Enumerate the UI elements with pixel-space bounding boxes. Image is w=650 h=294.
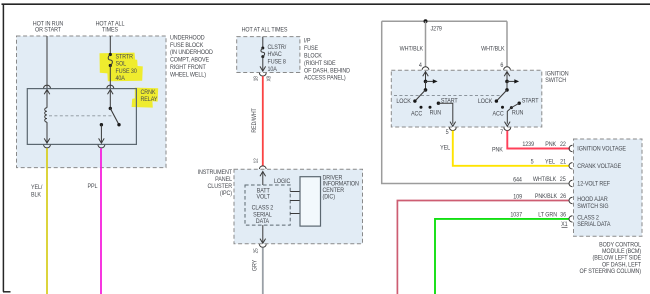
node CRANK VOLTAGE (577, 164, 621, 170)
svg-text:PNK/BLK: PNK/BLK (535, 194, 557, 200)
svg-text:CRNK: CRNK (141, 90, 156, 96)
label 109 PNK/BLK 26 (513, 194, 566, 201)
svg-text:PANEL: PANEL (215, 177, 233, 183)
wire logic to DIC stub 2 (290, 200, 300, 202)
wire WHT/BLK to ignition pin 6 (506, 21, 508, 67)
svg-text:FUSE BLOCK: FUSE BLOCK (170, 43, 203, 49)
connector dome at IPC entry (259, 166, 266, 169)
svg-text:RED/WHT: RED/WHT (252, 108, 258, 133)
svg-text:MODULE (BCM): MODULE (BCM) (602, 249, 641, 255)
node CLASS 2 SERIAL DATA (BCM) (577, 215, 610, 228)
svg-text:HOOD AJAR: HOOD AJAR (577, 197, 607, 203)
label LOCK (switch 1) (396, 99, 411, 105)
connector arc at BCM pin 36 (569, 216, 573, 222)
svg-text:PNK: PNK (545, 142, 556, 148)
pin 6 (500, 63, 503, 69)
instrument panel cluster dashed box (234, 169, 363, 244)
label WHT/BLK (left drop) (400, 46, 424, 52)
svg-text:LOCK: LOCK (396, 99, 411, 105)
svg-text:FUSE: FUSE (304, 46, 318, 52)
svg-text:WHT/BLK: WHT/BLK (481, 46, 505, 52)
page left border (2, 4, 4, 292)
svg-text:INSTRUMENT: INSTRUMENT (198, 170, 233, 176)
svg-text:1239: 1239 (522, 142, 534, 148)
wire into fuse 8 (262, 37, 264, 48)
connector dome at relay pin (switch hot) (107, 85, 114, 88)
svg-text:OF STEERING COLUMN): OF STEERING COLUMN) (580, 269, 642, 275)
svg-text:5: 5 (531, 159, 534, 165)
label RUN (switch 1) (430, 110, 441, 116)
wire logic to DIC stub 1 (290, 191, 300, 193)
svg-text:7: 7 (500, 130, 503, 136)
svg-text:OR START: OR START (35, 27, 62, 33)
svg-text:STRTR: STRTR (116, 54, 133, 60)
ignition switch dashed box (391, 70, 542, 127)
svg-text:DATA: DATA (256, 219, 269, 225)
connector cup at ignition pin 7 (504, 127, 511, 130)
relay switch contacts and blade (100, 107, 121, 127)
svg-text:6: 6 (500, 63, 503, 69)
label HOT AT ALL TIMES (left) (96, 21, 126, 33)
svg-text:PPL: PPL (88, 184, 99, 190)
svg-text:12-VOLT REF: 12-VOLT REF (577, 181, 610, 187)
svg-text:18: 18 (253, 76, 259, 81)
label YEL (at bend) (440, 145, 451, 151)
pin 25 (253, 248, 259, 253)
pin X8 (266, 76, 272, 82)
svg-text:12: 12 (253, 158, 259, 163)
svg-text:TIMES: TIMES (102, 27, 118, 33)
label GRY (252, 260, 258, 272)
connector cup below relay (coil ground) (44, 145, 51, 148)
label UNDERHOOD FUSE BLOCK location (170, 35, 213, 78)
connector dome at relay pin (coil hot) (44, 85, 51, 88)
label LOCK (switch 2) (478, 99, 493, 105)
crank relay box outline (27, 89, 136, 145)
connector arc at BCM pin 21 (569, 163, 572, 169)
label INSTRUMENT PANEL CLUSTER (IPC) (198, 170, 233, 197)
svg-text:RUN: RUN (430, 110, 441, 116)
label YEL/BLK (31, 185, 43, 199)
svg-text:25: 25 (253, 248, 259, 253)
svg-text:FUSE 30: FUSE 30 (116, 69, 137, 75)
ignition switch 2 (run) (495, 79, 521, 109)
pin 18 (253, 76, 259, 81)
svg-text:BLOCK: BLOCK (304, 53, 322, 59)
wire YEL/BLK relay coil to bottom (46, 148, 48, 294)
svg-text:RIGHT FRONT: RIGHT FRONT (170, 65, 206, 71)
label 1239 PNK 22 (522, 142, 565, 148)
svg-text:(RIGHT SIDE: (RIGHT SIDE (304, 61, 336, 67)
wire coil to relay bottom (44, 122, 50, 143)
svg-text:CRANK VOLTAGE: CRANK VOLTAGE (577, 164, 621, 170)
connector cup below relay (switch output) (98, 145, 105, 148)
IPC logic dashed box (245, 185, 290, 225)
label HOT AT ALL TIMES (middle) (242, 27, 288, 33)
svg-text:VOLT: VOLT (257, 194, 271, 200)
svg-text:SOL: SOL (116, 61, 127, 67)
relay coil (45, 108, 47, 122)
wire J279 bus horizontal (382, 20, 507, 22)
svg-text:21: 21 (560, 159, 566, 165)
pin 7 (500, 130, 503, 136)
svg-text:YEL: YEL (440, 145, 451, 151)
wire PNK/BLK hood ajar to BCM (397, 201, 569, 294)
label 644 WHT/BLK 25 (513, 177, 566, 184)
svg-text:SWITCH SIG: SWITCH SIG (577, 204, 609, 210)
svg-text:CLUSTER: CLUSTER (207, 184, 232, 190)
fuse STRTR SOL FUSE 30 40A symbol (108, 53, 112, 67)
switch linkage dashed line (394, 95, 501, 97)
wire RED/WHT fuse 8 to IPC (262, 76, 264, 166)
I/P fuse block dashed box (237, 37, 300, 73)
wire PNK pin 7 to BCM (507, 131, 570, 149)
wire logic to IPC exit (260, 225, 266, 243)
svg-text:WHT/BLK: WHT/BLK (533, 177, 557, 183)
svg-text:ACC: ACC (411, 111, 422, 117)
connector arc at BCM pin 25 (569, 180, 572, 186)
svg-text:644: 644 (513, 177, 523, 183)
arrow into ignition pin 6 (504, 72, 510, 82)
connector cup at ignition pin 5 (449, 127, 456, 130)
wire fuse 30 to relay (109, 66, 111, 89)
svg-text:HVAC: HVAC (268, 52, 282, 58)
wire START/RUN contacts to pin 7 (505, 103, 520, 126)
wire PPL relay output to bottom (100, 148, 102, 294)
page bottom-left border stub (3, 291, 11, 293)
node HOOD AJAR SWITCH SIG (577, 197, 609, 210)
page top border (2, 3, 650, 5)
label J279 (431, 26, 442, 32)
svg-text:36: 36 (560, 212, 566, 218)
wire WHT/BLK to ignition pin 4 (425, 21, 427, 67)
highlighter mark over fuse label (100, 53, 143, 82)
label 1037 LT GRN 36 X1 (510, 212, 567, 228)
relay linkage dashed line (49, 115, 114, 117)
label ACC (switch 2) (493, 111, 504, 117)
svg-text:GRY: GRY (252, 260, 258, 272)
wire hot-in-run feed into relay (46, 36, 48, 88)
label IGNITION SWITCH (545, 71, 568, 84)
svg-text:FUSE 8: FUSE 8 (268, 59, 286, 65)
svg-text:CLASS 2: CLASS 2 (252, 205, 274, 211)
pin 5 (446, 130, 449, 136)
svg-text:LT GRN: LT GRN (538, 212, 557, 218)
pin 4 (419, 63, 423, 69)
highlighter mark over CRNK RELAY label (132, 88, 159, 108)
svg-text:X8: X8 (266, 76, 272, 82)
svg-text:26: 26 (560, 194, 566, 200)
node J279 junction (424, 19, 428, 23)
label LOGIC (274, 179, 290, 185)
label START (switch 1) (441, 98, 458, 104)
svg-text:HOT AT ALL TIMES: HOT AT ALL TIMES (242, 27, 288, 33)
wire LT GRN class 2 to BCM (435, 219, 570, 294)
label I/P FUSE BLOCK location (304, 38, 350, 81)
label PNK (at bend) (492, 147, 503, 153)
svg-text:(BELOW LEFT SIDE: (BELOW LEFT SIDE (593, 255, 642, 261)
value label CLSTR/ HVAC FUSE 8 10A (268, 45, 287, 73)
connector dome at ignition pin 6 (504, 67, 511, 70)
svg-text:OF DASH, LEFT: OF DASH, LEFT (602, 262, 641, 268)
wire hot-at-all-times feed to fuse 30 (109, 36, 111, 55)
label RUN (switch 2) (512, 110, 523, 116)
connector cup below IPC (259, 244, 266, 247)
wire logic to DIC stub 3 (290, 213, 300, 215)
svg-text:5: 5 (446, 130, 449, 136)
svg-text:J279: J279 (431, 26, 442, 32)
value label STRTR SOL FUSE 30 40A (116, 54, 137, 82)
connector dome at ignition pin 4 (422, 67, 429, 70)
node 12-VOLT REF (577, 181, 610, 187)
label WHT/BLK (right drop) (481, 46, 505, 52)
svg-text:(IN UNDERHOOD: (IN UNDERHOOD (170, 50, 213, 56)
label PPL (88, 184, 99, 190)
svg-text:WHT/BLK: WHT/BLK (400, 46, 424, 52)
svg-text:PNK: PNK (492, 147, 503, 153)
arrow into relay (coil) (44, 90, 50, 108)
svg-text:ACC: ACC (493, 111, 504, 117)
label RED/WHT (252, 108, 258, 133)
label CRNK RELAY (141, 90, 158, 103)
svg-text:OF DASH, BEHIND: OF DASH, BEHIND (304, 68, 350, 74)
svg-text:10A: 10A (268, 67, 278, 73)
svg-text:1037: 1037 (510, 212, 522, 218)
wire WHT/BLK 12-volt ref branch (left vertical + run to BCM) (382, 21, 570, 183)
node IGNITION VOLTAGE (577, 146, 626, 152)
arrow into IPC (260, 172, 266, 186)
svg-text:I/P: I/P (304, 38, 311, 44)
svg-text:LOCK: LOCK (478, 99, 493, 105)
wire GRY from IPC to bottom (262, 248, 264, 294)
svg-text:RELAY: RELAY (141, 97, 158, 103)
crank relay box (27, 89, 136, 145)
svg-text:22: 22 (560, 142, 566, 148)
connector arc at BCM pin 26 (569, 197, 572, 203)
svg-text:UNDERHOOD: UNDERHOOD (170, 35, 205, 41)
label BODY CONTROL MODULE (BCM) location (580, 242, 642, 275)
connector cup below I/P fuse block (259, 73, 266, 76)
svg-text:SWITCH: SWITCH (545, 78, 566, 84)
svg-text:RUN: RUN (512, 110, 523, 116)
wire START contact to pin 5 (438, 103, 455, 126)
label HOT IN RUN OR START (33, 21, 63, 33)
svg-text:ACCESS PANEL): ACCESS PANEL) (304, 75, 346, 81)
svg-text:LOGIC: LOGIC (274, 179, 290, 185)
svg-text:25: 25 (560, 177, 566, 183)
svg-text:COMPT, ABOVE: COMPT, ABOVE (170, 57, 209, 63)
svg-text:40A: 40A (116, 76, 126, 82)
node BATT VOLT (257, 188, 271, 200)
ignition switch 1 (crank) (413, 79, 440, 108)
connector arc at BCM pin 22 (569, 145, 572, 151)
label START (switch 2) (522, 98, 539, 104)
fuse CLSTR/HVAC FUSE 8 10A symbol (261, 47, 265, 59)
label DRIVER INFORMATION CENTER (DIC) (323, 175, 359, 201)
svg-text:YEL: YEL (545, 159, 556, 165)
DIC display unit box (300, 177, 321, 226)
svg-text:IGNITION VOLTAGE: IGNITION VOLTAGE (577, 146, 626, 152)
wire fuse 8 to box exit (260, 57, 266, 72)
arrow into relay (switch) (108, 90, 114, 109)
pin 12 (253, 158, 259, 163)
svg-text:YEL/: YEL/ (31, 185, 43, 191)
arrow into ignition pin 4 (423, 72, 429, 82)
svg-text:BODY CONTROL: BODY CONTROL (599, 242, 642, 248)
node CLASS 2 SERIAL DATA (IPC) (252, 205, 274, 225)
svg-text:SERIAL DATA: SERIAL DATA (577, 222, 610, 228)
svg-text:START: START (522, 98, 539, 104)
wire relay switch output to relay bottom (99, 125, 105, 143)
wire YEL pin 5 to BCM (453, 131, 570, 166)
svg-text:IGNITION: IGNITION (545, 71, 568, 77)
svg-text:(IPC): (IPC) (220, 191, 232, 197)
svg-text:109: 109 (513, 194, 522, 200)
svg-text:SERIAL: SERIAL (253, 212, 272, 218)
svg-text:CLSTR/: CLSTR/ (268, 45, 287, 51)
underhood fuse block dashed box (17, 36, 167, 168)
svg-text:CLASS 2: CLASS 2 (577, 215, 599, 221)
body control module dashed box (574, 139, 643, 236)
svg-text:(DIC): (DIC) (323, 194, 336, 200)
svg-text:WHEEL WELL): WHEEL WELL) (170, 72, 206, 78)
svg-text:BLK: BLK (31, 192, 41, 198)
label 5 YEL 21 (531, 159, 566, 165)
label ACC (switch 1) (411, 111, 422, 117)
